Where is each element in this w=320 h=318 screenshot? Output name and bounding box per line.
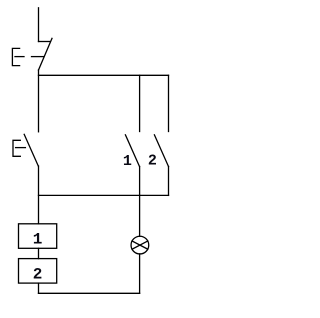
pushbutton S2 actuator bracket <box>13 140 20 156</box>
lamp H1 cross stroke b <box>132 241 148 249</box>
pushbutton S1 linkage dash b <box>32 56 45 58</box>
wire branch to contact 1 <box>139 75 141 131</box>
wire lamp to bottom rail <box>139 254 141 293</box>
relay contact 2 moving arm <box>154 135 168 167</box>
pushbutton S1 linkage dash a <box>15 56 24 58</box>
wire middle rail <box>39 194 169 196</box>
svg-text:2: 2 <box>33 266 43 284</box>
svg-text:2: 2 <box>148 152 157 169</box>
pushbutton S1 actuator bracket <box>12 48 19 65</box>
pushbutton S1 NC contact moving arm <box>39 38 53 70</box>
wire branch to contact 2 <box>168 75 170 131</box>
wire contact 1 to middle rail <box>139 167 141 196</box>
wire top rail <box>39 74 169 76</box>
wire bottom rail <box>39 292 140 294</box>
wire top supply <box>38 8 40 42</box>
pushbutton S1 NC contact fixed bar <box>39 41 51 43</box>
wire middle rail to lamp <box>139 195 141 236</box>
wire S2 to middle rail <box>38 166 40 224</box>
lamp H1 circle <box>131 236 149 254</box>
wire contact 2 to middle rail <box>168 167 170 196</box>
coil box 2 <box>19 259 57 284</box>
pushbutton S2 NO contact moving arm <box>24 134 38 166</box>
svg-text:1: 1 <box>33 231 43 249</box>
relay contact 1 moving arm <box>125 135 139 167</box>
wire coil 2 to bottom rail <box>38 283 40 293</box>
pushbutton S2 linkage dash <box>16 147 26 149</box>
svg-text:1: 1 <box>123 153 132 170</box>
lamp H1 cross stroke a <box>132 241 148 249</box>
coil box 1 <box>19 224 57 249</box>
wire between coils <box>38 248 40 258</box>
wire left column S1 to S2 <box>38 70 40 132</box>
